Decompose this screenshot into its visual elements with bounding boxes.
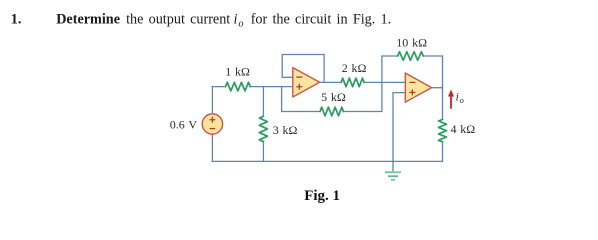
svg-text:2 kΩ: 2 kΩ bbox=[342, 61, 367, 75]
resistor 3 kOhm bbox=[259, 116, 267, 141]
wire: U2 + input stub down to ground bbox=[393, 93, 405, 172]
resistor 4 kOhm bbox=[439, 119, 447, 141]
svg-text:1.Determinethe output currenti: 1.Determinethe output currentiofor the c… bbox=[11, 12, 391, 30]
svg-text:10 kΩ: 10 kΩ bbox=[396, 36, 427, 50]
wire: 3k bottom to bottom rail bbox=[262, 142, 264, 162]
wire: U1 output to 2k to U2 - input bbox=[320, 81, 406, 83]
wire: U1 feedback loop (output to - input) bbox=[282, 55, 324, 83]
svg-text:3 kΩ: 3 kΩ bbox=[273, 123, 298, 137]
wire: bottom rail bbox=[212, 160, 442, 162]
svg-text:i: i bbox=[456, 92, 459, 104]
wire: 4k bottom to bottom rail bbox=[442, 142, 444, 162]
node B: junction to 5k branch bbox=[282, 87, 320, 112]
ground bbox=[385, 172, 401, 180]
wire: 10k feedback top loop bbox=[382, 56, 443, 82]
wire: U1 - input stub bbox=[282, 76, 293, 78]
wire: U2 output to right vertical bbox=[432, 87, 443, 89]
node A: junction of 1k, 3k bbox=[262, 87, 264, 117]
svg-text:Fig. 1: Fig. 1 bbox=[304, 188, 340, 204]
svg-text:0.6 V: 0.6 V bbox=[170, 118, 198, 132]
svg-text:o: o bbox=[460, 95, 464, 105]
svg-text:4 kΩ: 4 kΩ bbox=[451, 122, 476, 136]
wire: right vertical, 10k to output node to 4k top bbox=[442, 56, 444, 119]
resistor 1 kOhm bbox=[226, 82, 251, 91]
resistor 5 kOhm bbox=[320, 107, 344, 116]
current arrow i_o bbox=[448, 90, 454, 109]
voltage source V1 0.6V bbox=[202, 114, 222, 134]
svg-text:1 kΩ: 1 kΩ bbox=[225, 65, 250, 79]
op-amp U1 bbox=[293, 68, 320, 97]
op-amp U2 bbox=[405, 73, 431, 102]
wire: top input wire with 1 kOhm to op-amp U1 + input bbox=[212, 86, 292, 88]
svg-text:5 kΩ: 5 kΩ bbox=[321, 90, 346, 104]
resistor 10 kOhm bbox=[398, 52, 424, 61]
wire: left vertical from source bottom to bottom rail bbox=[211, 134, 213, 161]
wire: left vertical from 1k wire down to source top bbox=[211, 87, 213, 114]
resistor 2 kOhm bbox=[341, 78, 364, 87]
wire: 5k right side up to U2 inverting node bbox=[344, 82, 382, 111]
